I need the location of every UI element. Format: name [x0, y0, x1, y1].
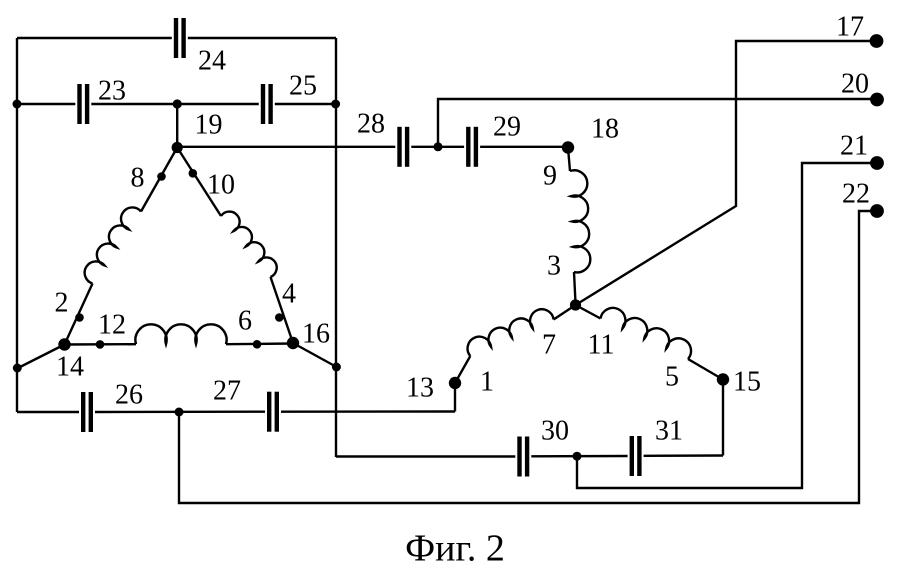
label 30 [541, 416, 569, 447]
label 11 [588, 330, 615, 361]
svg-text:23: 23 [98, 76, 126, 107]
svg-text:24: 24 [198, 46, 226, 77]
wire node 16 to right rail [293, 343, 337, 367]
junction dot right rail at row [331, 100, 340, 109]
capacitor C28 [400, 127, 408, 167]
svg-text:2: 2 [55, 288, 69, 319]
svg-text:15: 15 [733, 367, 761, 398]
svg-text:30: 30 [541, 416, 569, 447]
winding 10-4 right delta side: straight segments [177, 148, 293, 344]
winding 8-2 left delta side: straight segments [65, 148, 178, 345]
svg-text:19: 19 [195, 110, 223, 141]
svg-text:11: 11 [588, 330, 615, 361]
label 15 [733, 367, 761, 398]
label 3 [547, 251, 561, 282]
svg-text:1: 1 [480, 367, 494, 398]
junction node between C26 and C27 [175, 408, 184, 417]
capacitor C30 [520, 437, 528, 477]
leg dot 4 [275, 313, 284, 322]
winding 7-1: straight segments [455, 305, 576, 383]
label 2 [55, 288, 69, 319]
node 14 dot [58, 338, 70, 350]
label 21 [840, 131, 868, 162]
label 13 [406, 373, 434, 404]
wire star point diagonal and riser to terminal 17 [576, 41, 878, 305]
node 13 dot [449, 377, 461, 389]
svg-text:16: 16 [302, 319, 330, 350]
label 10 [207, 170, 235, 201]
wire junction 179 down and right to terminal-22 riser [179, 211, 877, 503]
capacitor C23 [80, 84, 88, 124]
capacitor C27 [269, 392, 277, 432]
label 31 [655, 416, 683, 447]
wire node 14 to left rail [18, 345, 65, 369]
wire bottom-left row with gaps for capacitors 26,27 [17, 410, 455, 413]
wire apex to capacitor-28 row [177, 146, 395, 148]
svg-text:8: 8 [131, 163, 145, 194]
leg dot 2 [75, 313, 84, 322]
label 6 [238, 306, 252, 337]
terminal 21 dot [870, 156, 884, 170]
node 16 dot [287, 337, 299, 349]
leg dot 10 [189, 169, 198, 178]
leg dot 12 [96, 340, 105, 349]
label 18 [591, 114, 619, 145]
label 23 [98, 76, 126, 107]
svg-text:13: 13 [406, 373, 434, 404]
label 27 [213, 376, 241, 407]
winding 8-2 left delta side: coil [85, 207, 141, 283]
wire node 15 drop [722, 380, 724, 456]
wire left rail [16, 38, 18, 412]
svg-text:4: 4 [282, 279, 296, 310]
svg-text:21: 21 [840, 131, 868, 162]
node 19 junction dot [173, 99, 182, 108]
svg-text:25: 25 [289, 71, 317, 102]
label 12 [98, 310, 126, 341]
svg-text:27: 27 [213, 376, 241, 407]
star point dot [570, 299, 581, 310]
terminal 20 dot [870, 93, 884, 107]
svg-text:20: 20 [841, 69, 869, 100]
caption Fig. 2 [405, 528, 505, 570]
capacitor C26 [83, 392, 91, 432]
svg-text:9: 9 [543, 161, 557, 192]
label 17 [836, 12, 864, 43]
label 26 [115, 380, 143, 411]
svg-text:31: 31 [655, 416, 683, 447]
terminal 17 dot [870, 34, 884, 48]
winding 9-3: straight segments [568, 148, 576, 304]
wire node-19 row with gaps for capacitors 23 and 25 [17, 103, 336, 105]
junction dot on right rail [332, 363, 341, 372]
junction node between C30 and C31 [573, 452, 582, 461]
leg dot 6 [253, 340, 262, 349]
wire junction 577 down and right to terminal-21 riser [577, 163, 877, 488]
node 15 dot [717, 373, 729, 385]
label 28 [357, 109, 385, 140]
capacitor C24 [176, 18, 184, 58]
winding 12-6 bottom delta side: straight segments [65, 344, 294, 345]
label 22 [842, 179, 870, 210]
terminal 22 dot [870, 204, 884, 218]
node apex (19) dot [172, 142, 183, 153]
wire node 13 drop [454, 383, 456, 412]
capacitor C25 [263, 84, 271, 124]
label 24 [198, 46, 226, 77]
label 1 [480, 367, 494, 398]
winding 10-4 right delta side: coil [221, 212, 277, 277]
label 9 [543, 161, 557, 192]
junction node at 438,147 [434, 142, 443, 151]
label 5 [665, 362, 679, 393]
leg dot 8 [157, 172, 166, 181]
label 29 [493, 112, 521, 143]
svg-text:29: 29 [493, 112, 521, 143]
label 4 [282, 279, 296, 310]
svg-text:18: 18 [591, 114, 619, 145]
wire node 19 to apex [176, 104, 178, 148]
svg-text:22: 22 [842, 179, 870, 210]
winding 9-3: coil [570, 170, 590, 272]
label 19 [195, 110, 223, 141]
label 16 [302, 319, 330, 350]
label 20 [841, 69, 869, 100]
label 8 [131, 163, 145, 194]
svg-text:14: 14 [56, 352, 84, 383]
svg-text:3: 3 [547, 251, 561, 282]
svg-text:26: 26 [115, 380, 143, 411]
wire capacitor 28 to junction [411, 146, 438, 148]
label 14 [56, 352, 84, 383]
node 18 dot [562, 141, 574, 153]
label 25 [289, 71, 317, 102]
wire bottom-right row with gaps for capacitors 30,31 [336, 456, 723, 457]
svg-text:10: 10 [207, 170, 235, 201]
winding 11-5: straight segments [576, 305, 724, 380]
capacitor C31 [632, 436, 640, 476]
winding 7-1: coil [468, 309, 554, 356]
svg-text:Фиг. 2: Фиг. 2 [405, 528, 505, 570]
winding 12-6 bottom delta side: coil [135, 324, 226, 344]
svg-text:7: 7 [542, 330, 556, 361]
winding 11-5: coil [601, 308, 692, 359]
wire junction up and right to terminal 20 [438, 99, 877, 147]
svg-text:28: 28 [357, 109, 385, 140]
wire right rail [335, 38, 337, 457]
svg-text:6: 6 [238, 306, 252, 337]
svg-text:17: 17 [836, 12, 864, 43]
svg-text:12: 12 [98, 310, 126, 341]
junction dot on left rail [13, 364, 22, 373]
junction dot left rail at row [13, 100, 22, 109]
capacitor C29 and wire to node 18 [438, 127, 568, 167]
label 7 [542, 330, 556, 361]
svg-text:5: 5 [665, 362, 679, 393]
wire top rail with gap for capacitor 24 [17, 37, 336, 39]
